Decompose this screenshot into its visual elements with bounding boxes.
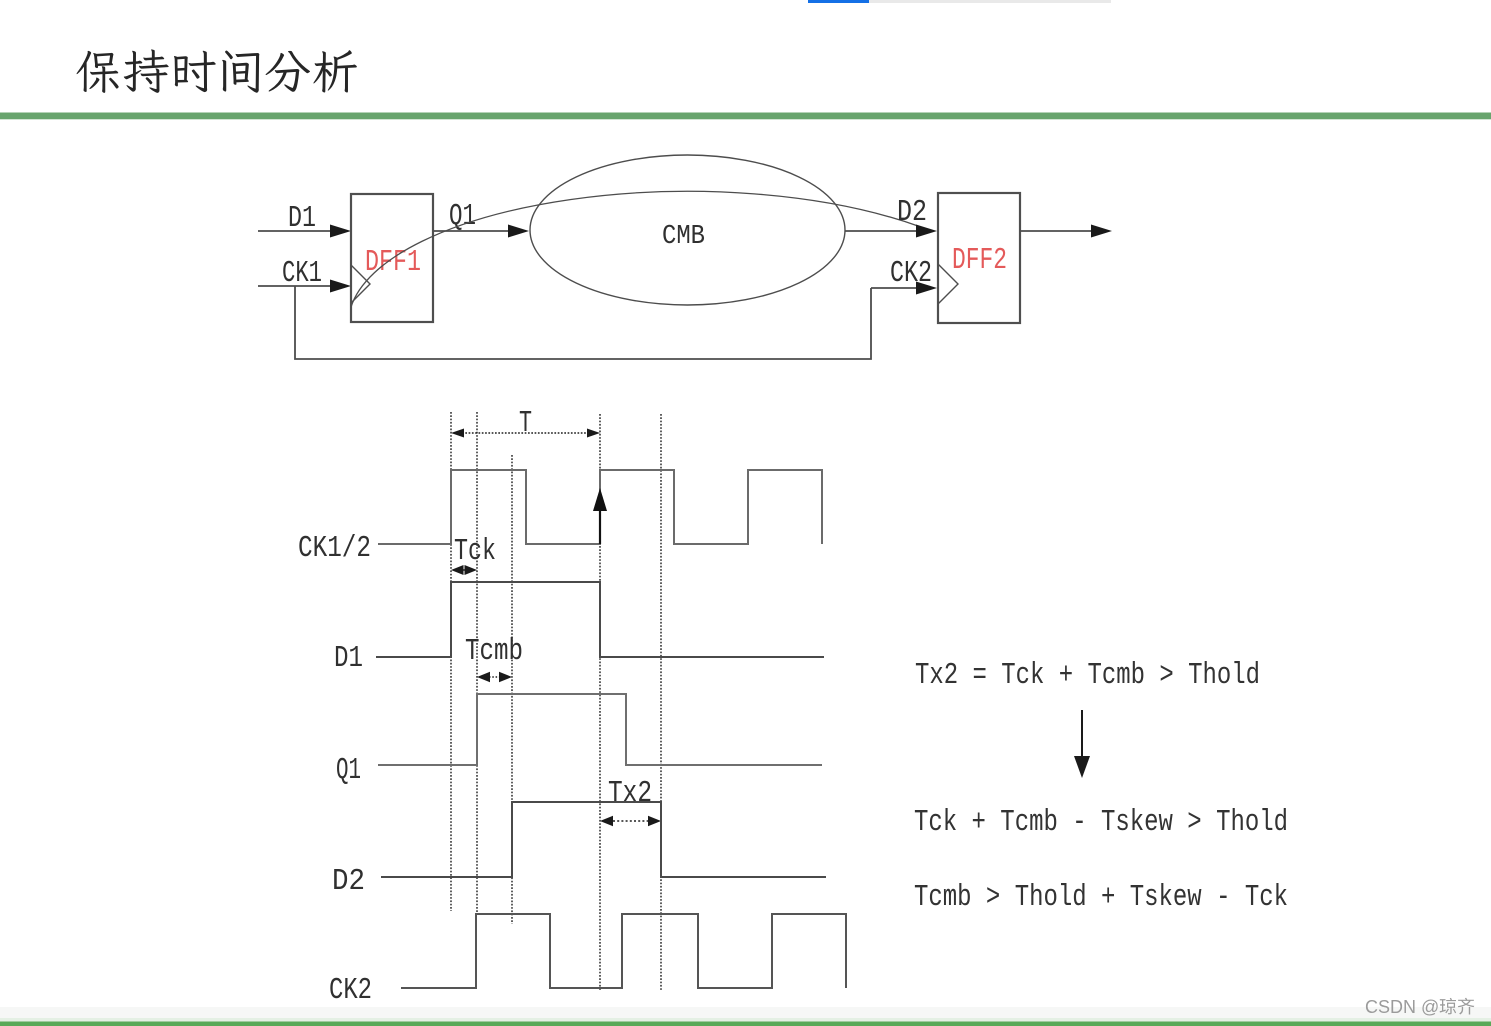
waveform CK2 [401, 914, 846, 988]
waveform D2 [381, 802, 826, 877]
svg-text:T: T [519, 406, 532, 441]
wire CK2 input [871, 282, 937, 295]
svg-text:DFF2: DFF2 [952, 243, 1007, 278]
combinational logic cloud CMB [530, 155, 845, 305]
long data path arc from DFF1 clock to D2 [351, 191, 918, 307]
wire DFF2 output [1020, 225, 1112, 238]
Tck dimension arrow [451, 565, 477, 575]
waveform CK1/2 [378, 470, 822, 544]
svg-text:CK2: CK2 [890, 256, 932, 291]
svg-text:CK1: CK1 [282, 256, 322, 291]
bottom green bar [0, 1022, 1491, 1026]
svg-text:Tck + Tcmb - Tskew > Thold: Tck + Tcmb - Tskew > Thold [914, 805, 1288, 840]
wire CK1 input [258, 280, 351, 293]
svg-text:D1: D1 [334, 641, 363, 676]
wire Q1 [433, 225, 529, 238]
wire D2 [845, 225, 937, 238]
Tx2 dimension arrow [600, 816, 661, 826]
top progress bar gray segment [869, 0, 1111, 3]
waveform Q1 [378, 694, 822, 765]
svg-text:Q1: Q1 [449, 199, 476, 234]
flip-flop DFF1 box [351, 194, 433, 322]
svg-text:D1: D1 [288, 201, 316, 236]
green title rule [0, 113, 1491, 120]
svg-text:D2: D2 [897, 195, 927, 230]
capture clock edge arrow [593, 488, 607, 544]
implication down arrow [1074, 710, 1090, 778]
top progress bar blue segment [808, 0, 869, 3]
watermark CSDN @琼齐 [1365, 997, 1474, 1017]
DFF1 clock triangle [351, 265, 370, 303]
flip-flop DFF2 box [938, 193, 1020, 323]
svg-text:CK2: CK2 [329, 973, 372, 1008]
waveform D1 [376, 582, 824, 657]
period T dimension arrow [451, 429, 600, 438]
light footer strip [0, 1007, 1491, 1018]
svg-text:Tcmb > Thold + Tskew - Tck: Tcmb > Thold + Tskew - Tck [914, 880, 1288, 915]
svg-text:D2: D2 [332, 864, 365, 899]
svg-text:CSDN @: CSDN @ [1365, 997, 1439, 1017]
clock distribution wire CK1 to CK2 [295, 286, 871, 359]
svg-text:Q1: Q1 [336, 753, 361, 788]
svg-text:Tck: Tck [454, 534, 496, 569]
dotted reference line A (CK1 rise) [450, 412, 452, 911]
slide title 保持时间分析 [77, 49, 357, 92]
DFF2 clock triangle [938, 264, 958, 304]
svg-text:Tcmb: Tcmb [465, 634, 523, 669]
wire D1 input [258, 225, 351, 238]
dotted reference line C (D2 rise) [511, 455, 513, 924]
svg-text:CK1/2: CK1/2 [298, 531, 371, 566]
dotted reference line B (CK2 rise / Q1 rise) [476, 412, 478, 914]
svg-text:Tx2: Tx2 [608, 776, 652, 811]
Tcmb dimension arrow [477, 672, 512, 682]
svg-text:DFF1: DFF1 [365, 245, 421, 280]
dotted reference line E (D2 fall) [660, 414, 662, 991]
dotted reference line D (CK1 2nd rise) [599, 414, 601, 991]
svg-text:Tx2 = Tck + Tcmb > Thold: Tx2 = Tck + Tcmb > Thold [915, 658, 1260, 693]
svg-text:CMB: CMB [662, 222, 705, 252]
